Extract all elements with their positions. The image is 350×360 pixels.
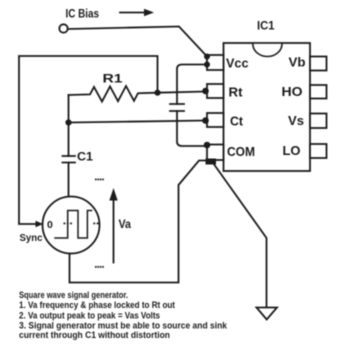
svg-text:C1: C1 [77, 150, 93, 164]
svg-text:current through C1 without dis: current through C1 without distortion [19, 330, 170, 340]
svg-text:Square wave signal generator.: Square wave signal generator. [19, 290, 128, 300]
svg-text:Vs: Vs [288, 114, 304, 128]
svg-text:3. Signal generator must be ab: 3. Signal generator must be able to sour… [19, 321, 227, 331]
svg-text:Vcc: Vcc [226, 57, 249, 71]
svg-text:Vb: Vb [289, 56, 306, 70]
svg-text:Ct: Ct [230, 115, 244, 129]
svg-text:LO: LO [283, 144, 301, 158]
svg-text:Rt: Rt [229, 86, 244, 100]
svg-text:HO: HO [282, 85, 303, 99]
svg-text:R1: R1 [103, 72, 123, 86]
svg-text:Va: Va [119, 219, 132, 231]
svg-text:0: 0 [47, 219, 53, 231]
svg-text:IC Bias: IC Bias [66, 7, 100, 21]
svg-text:Sync: Sync [20, 232, 43, 244]
svg-text:2. Va output peak to peak = Va: 2. Va output peak to peak = Vas Volts [19, 311, 160, 321]
svg-text:IC1: IC1 [257, 19, 275, 33]
svg-text:COM: COM [227, 145, 255, 159]
svg-text:1. Va frequency & phase locked: 1. Va frequency & phase locked to Rt out [19, 300, 175, 310]
